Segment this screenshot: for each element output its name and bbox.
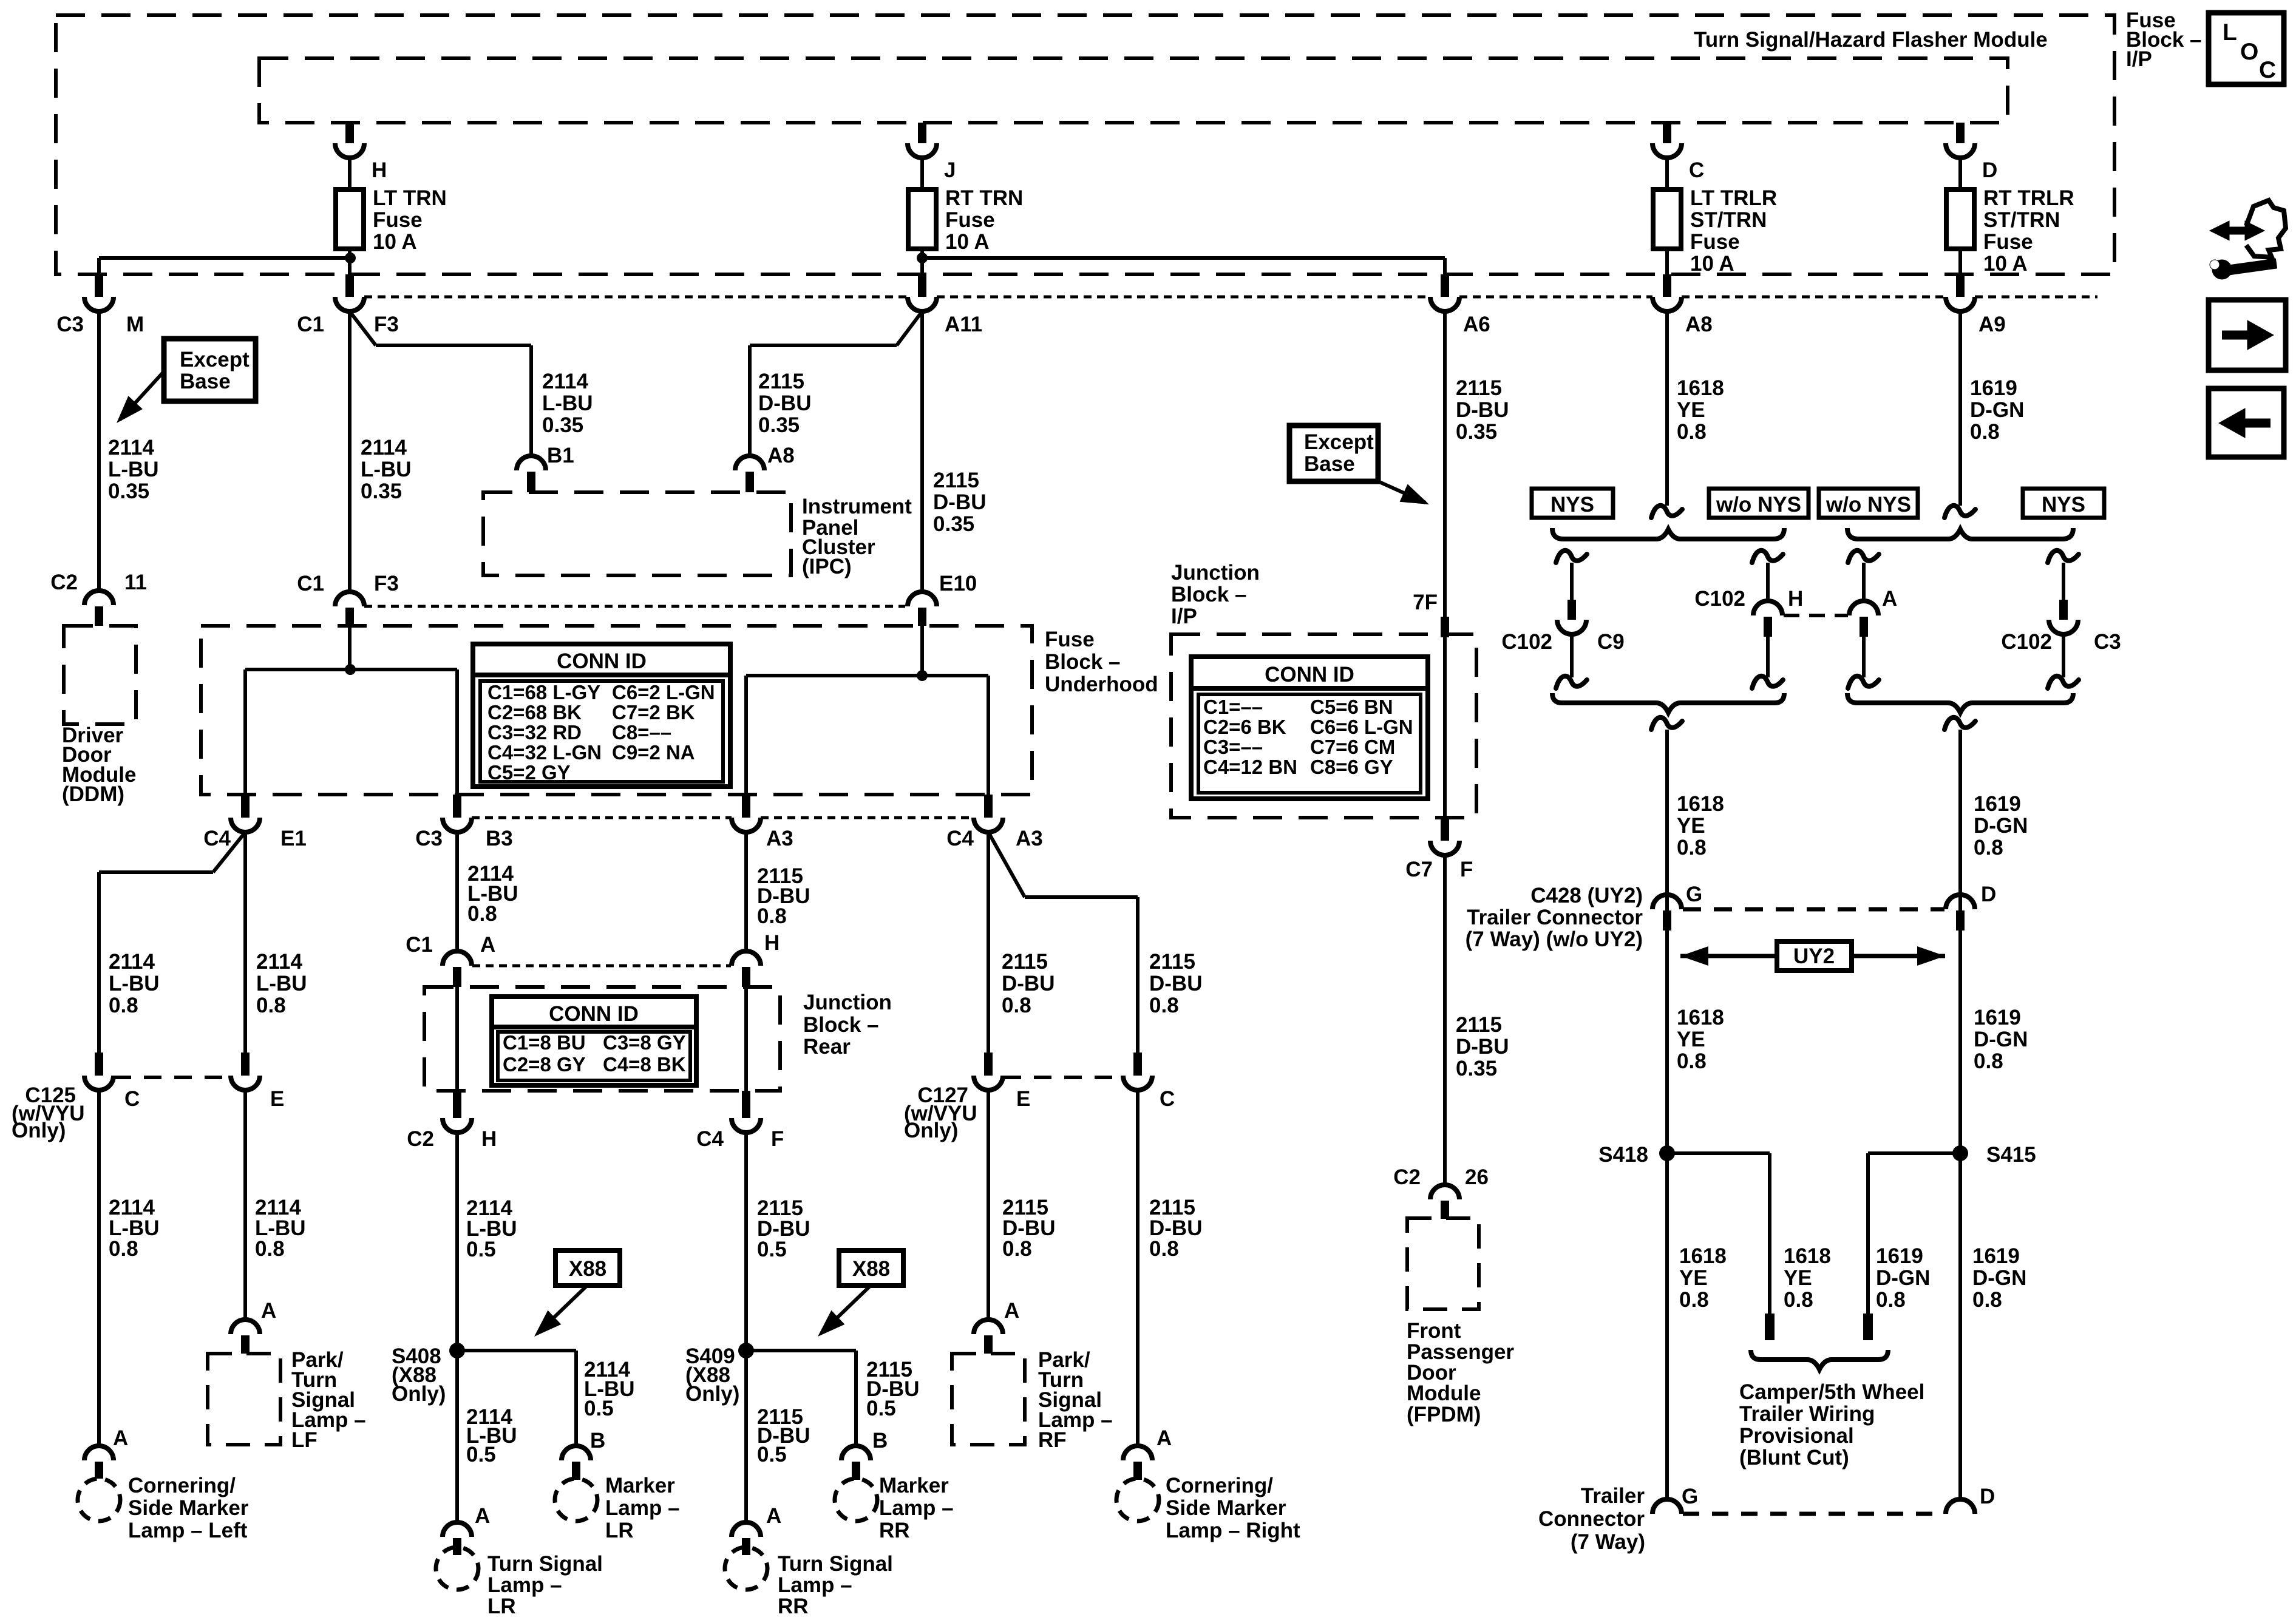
svg-text:NYS: NYS <box>1550 493 1594 517</box>
svg-text:C428 (UY2): C428 (UY2) <box>1530 884 1643 907</box>
svg-text:0.35: 0.35 <box>108 480 149 503</box>
svg-text:1619: 1619 <box>1974 1006 2021 1029</box>
svg-text:O: O <box>2240 39 2258 65</box>
svg-text:A: A <box>480 933 495 957</box>
svg-text:0.8: 0.8 <box>1149 994 1179 1017</box>
svg-text:D-BU: D-BU <box>1456 1035 1509 1059</box>
svg-text:LT TRN: LT TRN <box>373 186 447 210</box>
svg-text:C102: C102 <box>1501 630 1552 654</box>
svg-text:A: A <box>475 1504 490 1528</box>
svg-text:C3: C3 <box>2094 630 2121 654</box>
svg-text:C9=2 NA: C9=2 NA <box>612 741 695 764</box>
svg-text:Front: Front <box>1407 1319 1461 1343</box>
svg-text:YE: YE <box>1784 1266 1812 1290</box>
svg-text:Block –: Block – <box>803 1013 879 1037</box>
svg-text:RF: RF <box>1038 1428 1067 1452</box>
svg-text:L-BU: L-BU <box>108 458 159 481</box>
svg-text:Turn Signal/Hazard Flasher Mod: Turn Signal/Hazard Flasher Module <box>1694 28 2048 52</box>
svg-text:Block –: Block – <box>1045 650 1121 674</box>
svg-text:I/P: I/P <box>1171 605 1197 628</box>
svg-text:Except: Except <box>180 348 250 371</box>
svg-text:D-GN: D-GN <box>1970 398 2024 422</box>
svg-text:L-BU: L-BU <box>361 458 412 481</box>
svg-text:C2=8 GY: C2=8 GY <box>503 1053 586 1076</box>
svg-text:10 A: 10 A <box>945 230 990 254</box>
svg-text:D: D <box>1982 158 1997 182</box>
svg-text:D-BU: D-BU <box>758 392 811 415</box>
svg-text:Trailer: Trailer <box>1581 1484 1645 1508</box>
svg-text:RT TRN: RT TRN <box>945 186 1023 210</box>
svg-text:0.8: 0.8 <box>109 994 138 1017</box>
svg-text:M: M <box>126 313 144 336</box>
svg-text:A11: A11 <box>945 313 982 336</box>
svg-text:C4=32 L-GN: C4=32 L-GN <box>487 741 602 764</box>
svg-text:S418: S418 <box>1598 1143 1648 1167</box>
svg-text:C3: C3 <box>415 827 443 850</box>
svg-text:0.8: 0.8 <box>1149 1237 1179 1261</box>
svg-text:0.8: 0.8 <box>467 902 497 926</box>
svg-text:Cornering/: Cornering/ <box>1166 1474 1273 1497</box>
svg-text:ST/TRN: ST/TRN <box>1690 208 1767 232</box>
svg-text:Fuse: Fuse <box>945 208 995 232</box>
svg-text:B1: B1 <box>547 444 574 467</box>
svg-text:(FPDM): (FPDM) <box>1407 1403 1481 1426</box>
svg-text:C8=6 GY: C8=6 GY <box>1310 756 1393 778</box>
svg-text:F3: F3 <box>374 572 399 595</box>
svg-text:D-GN: D-GN <box>1972 1266 2026 1290</box>
svg-text:C3=8 GY: C3=8 GY <box>603 1031 686 1054</box>
svg-text:A: A <box>1004 1299 1019 1323</box>
svg-text:1618: 1618 <box>1784 1244 1831 1268</box>
svg-text:10 A: 10 A <box>1690 252 1734 276</box>
svg-text:2115: 2115 <box>933 469 979 492</box>
svg-text:L-BU: L-BU <box>109 972 160 995</box>
svg-text:C4: C4 <box>696 1127 724 1151</box>
svg-text:A: A <box>113 1426 128 1450</box>
svg-text:E1: E1 <box>280 827 307 850</box>
svg-text:26: 26 <box>1465 1165 1489 1189</box>
svg-text:Module: Module <box>1407 1381 1481 1405</box>
svg-text:A: A <box>1156 1426 1172 1450</box>
svg-text:7F: 7F <box>1413 591 1438 614</box>
svg-text:C1: C1 <box>297 572 324 595</box>
svg-text:C: C <box>2259 57 2276 83</box>
svg-text:0.35: 0.35 <box>758 413 800 437</box>
svg-text:G: G <box>1682 1485 1698 1508</box>
svg-text:0.35: 0.35 <box>1456 1057 1497 1080</box>
svg-text:Lamp – Left: Lamp – Left <box>128 1519 248 1542</box>
svg-text:LR: LR <box>605 1519 634 1542</box>
svg-text:YE: YE <box>1677 814 1705 838</box>
svg-text:C5=6 BN: C5=6 BN <box>1310 696 1393 718</box>
svg-text:C102: C102 <box>1694 587 1745 611</box>
svg-text:Only): Only) <box>904 1119 958 1142</box>
svg-text:Underhood: Underhood <box>1045 673 1158 696</box>
svg-text:(DDM): (DDM) <box>62 782 124 806</box>
svg-text:C1=––: C1=–– <box>1203 696 1263 718</box>
svg-text:C2=6 BK: C2=6 BK <box>1203 716 1286 738</box>
svg-text:Side Marker: Side Marker <box>128 1496 249 1520</box>
svg-text:F3: F3 <box>374 313 399 336</box>
svg-text:Connector: Connector <box>1538 1507 1645 1531</box>
svg-text:D-BU: D-BU <box>1149 972 1202 995</box>
svg-text:0.5: 0.5 <box>466 1443 496 1466</box>
svg-text:A: A <box>261 1299 276 1323</box>
svg-text:C102: C102 <box>2001 630 2052 654</box>
svg-text:11: 11 <box>124 571 147 594</box>
svg-text:RR: RR <box>879 1519 910 1542</box>
svg-text:0.8: 0.8 <box>255 1237 285 1261</box>
svg-text:0.35: 0.35 <box>542 413 583 437</box>
svg-text:C4=8 BK: C4=8 BK <box>603 1053 686 1076</box>
svg-text:YE: YE <box>1679 1266 1708 1290</box>
svg-text:C2: C2 <box>1393 1165 1421 1189</box>
svg-text:0.8: 0.8 <box>1677 1049 1707 1073</box>
svg-text:10 A: 10 A <box>1983 252 2028 276</box>
svg-text:C3: C3 <box>56 313 84 336</box>
svg-text:0.8: 0.8 <box>757 904 787 928</box>
svg-text:C2: C2 <box>407 1127 434 1151</box>
svg-text:C6=6 L-GN: C6=6 L-GN <box>1310 716 1413 738</box>
svg-text:Lamp –: Lamp – <box>778 1573 852 1597</box>
svg-text:2115: 2115 <box>1456 376 1502 400</box>
svg-text:A9: A9 <box>1978 313 2006 336</box>
svg-text:2115: 2115 <box>758 370 804 393</box>
svg-text:C5=2 GY: C5=2 GY <box>487 761 571 784</box>
svg-text:Junction: Junction <box>1171 561 1260 585</box>
svg-text:1619: 1619 <box>1876 1244 1923 1268</box>
svg-text:2114: 2114 <box>108 436 154 459</box>
svg-text:1619: 1619 <box>1974 792 2021 816</box>
svg-text:0.5: 0.5 <box>584 1397 614 1420</box>
svg-text:RR: RR <box>778 1595 809 1617</box>
svg-text:B3: B3 <box>486 827 513 850</box>
svg-text:0.5: 0.5 <box>757 1238 787 1261</box>
svg-text:C3=––: C3=–– <box>1203 736 1263 758</box>
svg-text:0.5: 0.5 <box>757 1443 787 1466</box>
svg-text:C3=32 RD: C3=32 RD <box>487 721 582 744</box>
svg-text:Except: Except <box>1304 430 1374 454</box>
svg-text:0.8: 0.8 <box>1974 1049 2003 1073</box>
svg-text:Only): Only) <box>12 1119 66 1142</box>
svg-text:Block –: Block – <box>1171 583 1247 606</box>
svg-text:D-BU: D-BU <box>1002 972 1055 995</box>
svg-text:H: H <box>1788 587 1803 611</box>
svg-text:A8: A8 <box>767 444 795 467</box>
svg-text:A3: A3 <box>1016 827 1043 850</box>
svg-text:2114: 2114 <box>361 436 407 459</box>
svg-text:(Blunt Cut): (Blunt Cut) <box>1739 1446 1849 1470</box>
svg-text:Only): Only) <box>392 1382 446 1406</box>
svg-text:F: F <box>1460 858 1473 881</box>
svg-text:C1=68 L-GY: C1=68 L-GY <box>487 681 600 703</box>
svg-text:H: H <box>372 158 387 182</box>
svg-text:RT TRLR: RT TRLR <box>1983 186 2074 210</box>
svg-text:C4=12 BN: C4=12 BN <box>1203 756 1297 778</box>
svg-text:C7=2 BK: C7=2 BK <box>612 701 695 724</box>
svg-text:Marker: Marker <box>605 1474 675 1497</box>
svg-text:Camper/5th Wheel: Camper/5th Wheel <box>1739 1380 1924 1404</box>
svg-text:H: H <box>764 931 779 955</box>
svg-text:0.8: 0.8 <box>1002 994 1031 1017</box>
svg-text:2115: 2115 <box>1456 1013 1502 1037</box>
svg-text:B: B <box>590 1429 605 1453</box>
svg-text:Fuse: Fuse <box>373 208 423 232</box>
svg-text:E: E <box>270 1087 284 1111</box>
svg-text:1619: 1619 <box>1970 376 2017 400</box>
svg-text:Turn Signal: Turn Signal <box>487 1552 603 1576</box>
svg-text:E: E <box>1016 1087 1030 1111</box>
svg-text:Side Marker: Side Marker <box>1166 1496 1286 1520</box>
svg-text:C6=2 L-GN: C6=2 L-GN <box>612 681 715 703</box>
svg-text:Lamp – Right: Lamp – Right <box>1166 1519 1300 1542</box>
svg-text:NYS: NYS <box>2042 493 2085 517</box>
svg-text:L: L <box>2223 19 2237 46</box>
svg-text:LF: LF <box>291 1428 318 1452</box>
svg-text:0.8: 0.8 <box>1970 420 2000 444</box>
svg-text:YE: YE <box>1677 1028 1705 1051</box>
svg-text:F: F <box>771 1127 784 1151</box>
svg-text:C: C <box>124 1087 140 1111</box>
svg-text:0.8: 0.8 <box>1677 420 1707 444</box>
svg-text:CONN ID: CONN ID <box>549 1002 639 1026</box>
svg-text:1619: 1619 <box>1972 1244 2020 1268</box>
svg-text:Marker: Marker <box>879 1474 949 1497</box>
svg-text:C1: C1 <box>297 313 324 336</box>
svg-text:0.8: 0.8 <box>1679 1288 1709 1312</box>
svg-text:L-BU: L-BU <box>256 972 307 995</box>
svg-text:0.35: 0.35 <box>933 512 974 536</box>
svg-text:CONN ID: CONN ID <box>1265 663 1354 686</box>
svg-text:2114: 2114 <box>542 370 588 393</box>
svg-text:0.8: 0.8 <box>1972 1288 2002 1312</box>
svg-text:10 A: 10 A <box>373 230 417 254</box>
svg-text:Provisional: Provisional <box>1739 1424 1854 1448</box>
svg-text:C: C <box>1160 1087 1175 1111</box>
svg-text:CONN ID: CONN ID <box>557 649 647 673</box>
svg-text:Lamp –: Lamp – <box>605 1496 680 1520</box>
svg-text:C4: C4 <box>946 827 974 850</box>
svg-text:Fuse: Fuse <box>1690 230 1740 254</box>
svg-text:1618: 1618 <box>1677 792 1724 816</box>
svg-text:0.5: 0.5 <box>866 1397 896 1420</box>
svg-text:C: C <box>1689 158 1704 182</box>
svg-text:A6: A6 <box>1463 313 1490 336</box>
svg-text:A3: A3 <box>766 827 793 850</box>
svg-text:B: B <box>872 1429 888 1453</box>
svg-text:Trailer Connector: Trailer Connector <box>1467 906 1643 929</box>
svg-text:2114: 2114 <box>109 950 155 974</box>
svg-text:w/o NYS: w/o NYS <box>1716 493 1801 517</box>
svg-text:L-BU: L-BU <box>542 392 593 415</box>
svg-text:ST/TRN: ST/TRN <box>1983 208 2060 232</box>
svg-text:D-GN: D-GN <box>1974 814 2028 838</box>
svg-text:Fuse: Fuse <box>1983 230 2033 254</box>
svg-text:YE: YE <box>1677 398 1705 422</box>
svg-text:0.8: 0.8 <box>109 1237 138 1261</box>
svg-text:0.8: 0.8 <box>1784 1288 1813 1312</box>
svg-text:J: J <box>944 158 956 182</box>
svg-text:Junction: Junction <box>803 991 892 1014</box>
svg-text:C1=8 BU: C1=8 BU <box>503 1031 586 1054</box>
svg-text:D: D <box>1980 1485 1995 1508</box>
svg-text:A: A <box>1882 587 1897 611</box>
svg-text:C8=––: C8=–– <box>612 721 671 744</box>
svg-text:Lamp –: Lamp – <box>879 1496 954 1520</box>
svg-text:Lamp –: Lamp – <box>487 1573 562 1597</box>
svg-text:UY2: UY2 <box>1793 944 1835 968</box>
svg-text:w/o NYS: w/o NYS <box>1826 493 1911 517</box>
svg-text:Only): Only) <box>685 1382 739 1406</box>
svg-text:0.8: 0.8 <box>256 994 286 1017</box>
svg-text:Base: Base <box>180 370 231 393</box>
svg-text:C2: C2 <box>50 571 78 594</box>
svg-text:C4: C4 <box>203 827 231 850</box>
svg-text:0.35: 0.35 <box>361 480 402 503</box>
svg-text:E10: E10 <box>939 572 977 595</box>
svg-text:C2=68 BK: C2=68 BK <box>487 701 582 724</box>
svg-text:S415: S415 <box>1986 1143 2036 1167</box>
svg-text:2114: 2114 <box>256 950 302 974</box>
svg-text:X88: X88 <box>569 1257 606 1281</box>
svg-text:D-BU: D-BU <box>933 490 986 514</box>
svg-text:0.8: 0.8 <box>1002 1237 1032 1261</box>
svg-text:C7=6 CM: C7=6 CM <box>1310 736 1395 758</box>
svg-text:(7 Way): (7 Way) <box>1571 1530 1645 1554</box>
svg-text:D-BU: D-BU <box>1456 398 1509 422</box>
svg-text:C9: C9 <box>1597 630 1625 654</box>
svg-text:0.35: 0.35 <box>1456 420 1497 444</box>
svg-text:(IPC): (IPC) <box>802 555 852 578</box>
svg-text:C1: C1 <box>406 933 433 957</box>
svg-text:2115: 2115 <box>1002 950 1048 974</box>
svg-text:0.8: 0.8 <box>1876 1288 1906 1312</box>
svg-text:2115: 2115 <box>1149 950 1195 974</box>
svg-text:1618: 1618 <box>1677 376 1724 400</box>
svg-text:LT TRLR: LT TRLR <box>1690 186 1777 210</box>
svg-text:Cornering/: Cornering/ <box>128 1474 236 1497</box>
svg-text:D: D <box>1981 883 1996 906</box>
svg-text:X88: X88 <box>852 1257 890 1281</box>
svg-text:A: A <box>766 1504 781 1528</box>
svg-text:LR: LR <box>487 1595 516 1617</box>
svg-text:0.8: 0.8 <box>1677 836 1707 859</box>
svg-text:0.5: 0.5 <box>466 1238 496 1261</box>
svg-text:Instrument: Instrument <box>802 495 912 518</box>
svg-text:Turn Signal: Turn Signal <box>778 1552 893 1576</box>
svg-text:Trailer Wiring: Trailer Wiring <box>1739 1402 1875 1426</box>
svg-text:1618: 1618 <box>1677 1006 1724 1029</box>
svg-text:C7: C7 <box>1405 858 1433 881</box>
svg-text:G: G <box>1686 883 1702 906</box>
svg-text:(7 Way) (w/o UY2): (7 Way) (w/o UY2) <box>1466 927 1643 951</box>
svg-text:0.8: 0.8 <box>1974 836 2003 859</box>
svg-text:A8: A8 <box>1685 313 1713 336</box>
svg-text:Rear: Rear <box>803 1035 851 1059</box>
svg-text:D-GN: D-GN <box>1974 1028 2028 1051</box>
svg-text:Fuse: Fuse <box>1045 628 1095 651</box>
svg-text:1618: 1618 <box>1679 1244 1727 1268</box>
svg-text:D-GN: D-GN <box>1876 1266 1930 1290</box>
svg-text:H: H <box>481 1127 497 1151</box>
svg-text:Base: Base <box>1304 452 1355 476</box>
svg-text:I/P: I/P <box>2126 47 2152 71</box>
